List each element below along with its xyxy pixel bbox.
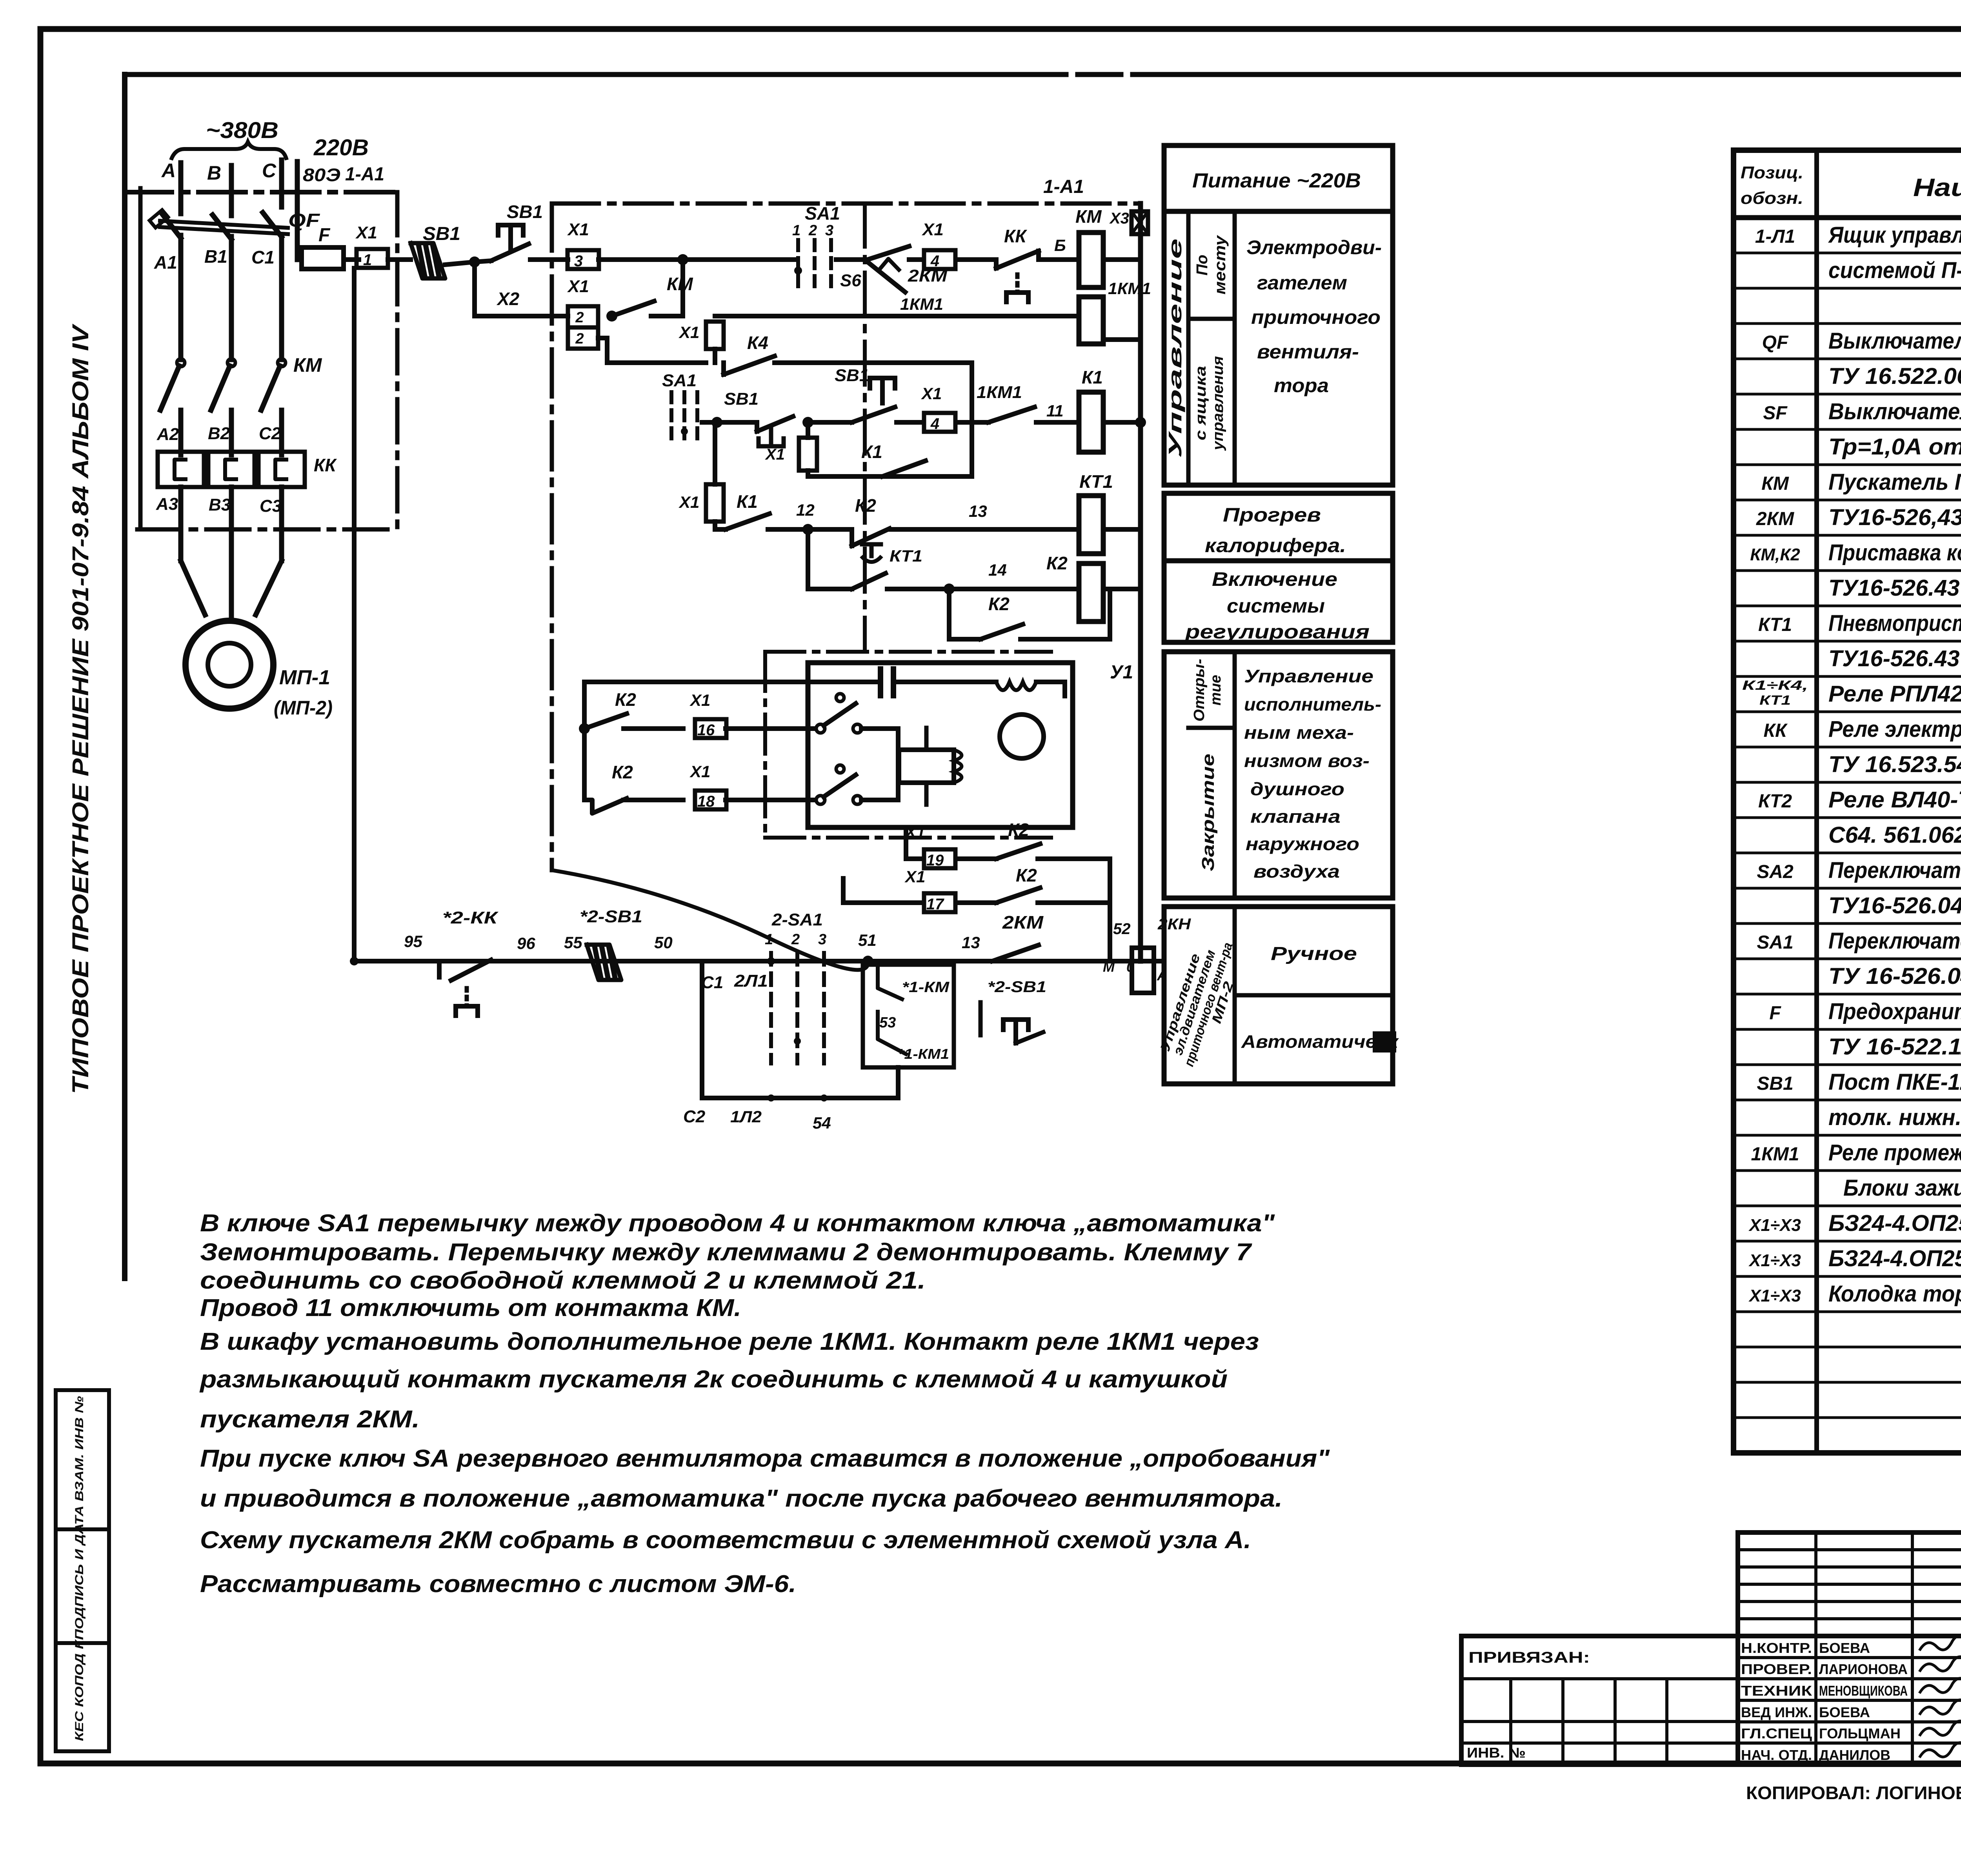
svg-text:SB1: SB1 (507, 202, 543, 222)
svg-text:БЗ24-4.ОП25-В/ВУЗ-10 ТУ16-526.: БЗ24-4.ОП25-В/ВУЗ-10 ТУ16-526.463-79 (1828, 1246, 1961, 1271)
svg-text:К2: К2 (1046, 553, 1068, 573)
wire KT1 coil to rail (1103, 527, 1141, 532)
wire X2 horizontal (475, 314, 568, 318)
wire row5 to K2 coil (887, 587, 1077, 591)
svg-text:В3: В3 (209, 495, 231, 514)
svg-text:2-SA1: 2-SA1 (771, 910, 823, 929)
svg-text:1-А1: 1-А1 (1043, 176, 1084, 197)
svg-text:4: 4 (930, 253, 939, 270)
svg-text:18: 18 (697, 793, 715, 810)
svg-text:Приставка контактная ПКЛ 2204: Приставка контактная ПКЛ 2204 (1828, 540, 1961, 565)
wire X1-16 into У1 (726, 726, 815, 731)
svg-text:19: 19 (926, 852, 944, 869)
switch 2-SA1 dashed poles (769, 953, 773, 1063)
wire 80Э entry tick (295, 162, 300, 260)
wire K1 seal branch bottom (808, 474, 972, 479)
svg-text:ПРИВЯЗАН:: ПРИВЯЗАН: (1468, 1649, 1590, 1666)
lower cell wire to ladder (598, 336, 607, 340)
svg-text:SB1: SB1 (724, 389, 759, 409)
svg-text:ТУ16-526.437-78: ТУ16-526.437-78 (1828, 575, 1961, 601)
riser 12 to row5 (806, 529, 810, 589)
svg-text:*1-КМ1: *1-КМ1 (898, 1046, 949, 1062)
parts table outer frame (1734, 150, 1961, 1453)
svg-text:КК: КК (1763, 720, 1788, 741)
1-А1 dash-dot left boundary (550, 204, 554, 870)
QF handle flag (149, 210, 168, 227)
svg-text:КМ: КМ (667, 274, 693, 294)
svg-text:Х3: Х3 (1109, 210, 1129, 227)
wire X1-18 into У1 (726, 798, 815, 802)
wire to X1-18 (624, 798, 683, 802)
title block upper small grid (1738, 1532, 1961, 1636)
svg-text:По: По (1193, 254, 1211, 275)
relay contact К2 row6 (949, 637, 980, 642)
svg-text:ТЕХНИК: ТЕХНИК (1741, 1683, 1812, 1699)
svg-text:КТ1: КТ1 (1758, 614, 1792, 635)
svg-text:клапана: клапана (1250, 806, 1341, 827)
svg-text:ТУ16-526,437-78.: ТУ16-526,437-78. (1828, 505, 1961, 530)
node row3 seal junction (802, 417, 813, 428)
svg-text:51: 51 (858, 931, 877, 949)
svg-text:К2: К2 (1016, 865, 1037, 885)
wire limit switch to motor node (861, 726, 898, 731)
svg-text:толк. нижн. красн. 1з 1р ТУ16.: толк. нижн. красн. 1з 1р ТУ16.526.216-78 (1828, 1105, 1961, 1130)
terminal X1 wire 19 row (906, 856, 922, 861)
svg-text:*2-КК: *2-КК (442, 908, 499, 927)
wire K2 coil to rail (1103, 587, 1141, 591)
svg-text:Х1: Х1 (904, 867, 925, 886)
svg-text:Наименование: Наименование (1913, 173, 1961, 202)
cabinet 1-Л1 thick boundary vertical (122, 75, 127, 1278)
wire row1 junction (445, 262, 475, 265)
svg-text:С3: С3 (260, 496, 282, 516)
terminal X1 wire 3 (568, 250, 599, 269)
inductor winding in У1 (996, 682, 1036, 690)
svg-text:М: М (1103, 959, 1115, 975)
row6 branch down (947, 589, 951, 639)
svg-text:ПРОВЕР.: ПРОВЕР. (1741, 1661, 1812, 1677)
wire KM coil to right rail (1103, 257, 1141, 262)
svg-text:SA1: SA1 (805, 203, 840, 224)
svg-text:F: F (318, 225, 331, 245)
svg-text:Реле промежуточное РПУ-2: Реле промежуточное РПУ-2 (1828, 1140, 1961, 1165)
svg-text:14: 14 (988, 561, 1007, 579)
svg-text:1-А1: 1-А1 (345, 164, 384, 185)
svg-text:Предохранитель ПРС-6УЗ-П Iпл.В: Предохранитель ПРС-6УЗ-П Iпл.Вст. 4А (1828, 999, 1961, 1024)
terminal X1 wires 2-2 double block (568, 306, 598, 327)
svg-text:В1: В1 (204, 246, 227, 267)
svg-text:2КМ: 2КМ (1002, 912, 1044, 933)
svg-text:тие: тие (1208, 675, 1224, 705)
switch SA1 dashed poles row1 (796, 240, 800, 291)
terminal X3 at top (1131, 211, 1148, 234)
svg-text:Пускатель ПМЛ110004 V~220В: Пускатель ПМЛ110004 V~220В (1828, 469, 1961, 495)
svg-text:Б: Б (1054, 236, 1066, 254)
svg-text:ГЛ.СПЕЦ: ГЛ.СПЕЦ (1741, 1725, 1812, 1741)
svg-text:пускателя 2КМ.: пускателя 2КМ. (200, 1406, 420, 1433)
wire row3 to 1KM1 contact (957, 420, 988, 425)
svg-text:Х1÷Х3: Х1÷Х3 (1748, 1286, 1801, 1305)
svg-text:1: 1 (363, 251, 372, 269)
svg-text:Пост ПКЕ-122-2УЗ толк. верх. 1: Пост ПКЕ-122-2УЗ толк. верх. 1з 1р (1828, 1069, 1961, 1095)
pushbutton SB1 (stop, hatched) (411, 243, 445, 278)
svg-text:2: 2 (575, 331, 584, 347)
svg-text:Тр=1,0А отс. 2.5 ТУ16-522.110: Тр=1,0А отс. 2.5 ТУ16-522.110-74 (1828, 434, 1961, 460)
svg-text:КК: КК (314, 455, 337, 475)
wire row5 left (808, 587, 852, 591)
svg-text:54: 54 (813, 1114, 831, 1132)
svg-text:приточного: приточного (1251, 306, 1381, 328)
svg-text:МЕНОВЩИКОВА: МЕНОВЩИКОВА (1819, 1683, 1908, 1699)
svg-text:2: 2 (808, 222, 817, 239)
wire row4 node 12 (768, 527, 852, 532)
svg-text:S6: S6 (840, 271, 861, 290)
wire cap top row (584, 680, 880, 684)
svg-text:Ящик управления приточной: Ящик управления приточной (1828, 222, 1961, 248)
wire row1 to KK contact (957, 257, 996, 262)
svg-text:Х1: Х1 (567, 277, 589, 296)
svg-text:1-Л1: 1-Л1 (1755, 226, 1795, 247)
left margin archive strip block (54, 1390, 58, 1751)
svg-text:Прогрев: Прогрев (1223, 504, 1321, 526)
svg-text:1Л2: 1Л2 (730, 1107, 762, 1126)
svg-text:Рассматривать совместно с ли: Рассматривать совместно с листом ЭМ-6. (200, 1571, 796, 1598)
svg-text:гателем: гателем (1257, 272, 1347, 294)
wire row1 to X1-4 (909, 257, 922, 262)
terminal X1 wire 17 row (843, 900, 922, 905)
svg-text:Колодка торцевая КТ5У ТУ16-526: Колодка торцевая КТ5У ТУ16-526.462-79 (1828, 1281, 1961, 1307)
left attachment block ПРИВЯЗАН (1461, 1636, 1738, 1765)
sheet outer frame top border (40, 26, 1961, 32)
svg-text:Ручное: Ручное (1271, 943, 1357, 964)
svg-text:F: F (1769, 1003, 1781, 1023)
relay contact К1 seal (882, 461, 926, 476)
node seal-in riser (677, 254, 688, 265)
svg-text:Пневмоприставка ПВЛ 1104: Пневмоприставка ПВЛ 1104 (1828, 611, 1961, 636)
svg-text:КК: КК (1004, 226, 1027, 246)
wire K1 coil to rail (1103, 420, 1141, 425)
svg-text:А1: А1 (154, 252, 177, 273)
limit switch close in У1 (816, 796, 825, 804)
svg-text:SA2: SA2 (1757, 862, 1794, 882)
svg-text:2Л1: 2Л1 (734, 971, 768, 991)
svg-text:Х1: Х1 (765, 446, 785, 463)
svg-text:КЕС КОПОД КПОДПИСЬ И ДАТА ВЗА: КЕС КОПОД КПОДПИСЬ И ДАТА ВЗАМ. ИНВ № (73, 1396, 86, 1741)
svg-text:3: 3 (574, 253, 583, 270)
dash-dot boundary of У1 section (765, 650, 1051, 654)
relay contact К4 (721, 363, 726, 374)
motor МП-1 inner circle (208, 643, 251, 686)
svg-text:БОЕВА: БОЕВА (1819, 1640, 1870, 1656)
svg-text:Х1: Х1 (567, 220, 589, 239)
svg-text:Управление: Управление (1244, 666, 1373, 686)
wire X1 to K1 contact (713, 522, 717, 529)
svg-text:Схему пускателя 2КМ собрать: Схему пускателя 2КМ собрать в соответств… (200, 1527, 1251, 1554)
wire row2 trunk to 1KM1 coil (715, 314, 1077, 318)
svg-text:КМ: КМ (1075, 206, 1102, 227)
phase C entry tick (279, 160, 284, 207)
svg-text:Электродви-: Электродви- (1246, 236, 1382, 258)
svg-text:КТ1: КТ1 (1759, 693, 1791, 708)
thermal relay КК break contact (994, 260, 999, 268)
relay contact К2 break row4 (850, 529, 854, 546)
wire row3 to X1 (897, 420, 922, 425)
svg-text:воздуха: воздуха (1253, 861, 1340, 882)
svg-text:QF: QF (288, 210, 320, 231)
wire X1-b to K4 (713, 349, 717, 363)
phase C line upper (279, 235, 284, 360)
svg-text:соединить со свободной кле: соединить со свободной клеммой 2 и клемм… (200, 1267, 926, 1294)
wire K4 loop top (775, 360, 972, 365)
svg-text:Х1: Х1 (689, 762, 710, 781)
phase B entry tick (229, 165, 234, 216)
svg-text:В ключе SA1 перемычку между: В ключе SA1 перемычку между проводом 4 и… (200, 1210, 1275, 1237)
svg-text:ДАНИЛОВ: ДАНИЛОВ (1819, 1747, 1890, 1763)
svg-text:К1: К1 (1082, 367, 1103, 387)
terminal X1 wire 1 (357, 249, 388, 268)
svg-text:Х1: Х1 (921, 384, 942, 403)
svg-text:1КМ1: 1КМ1 (1108, 279, 1151, 298)
title block signature rows (1738, 1636, 1961, 1765)
svg-text:Выключатель А63-МУЗ V~380В: Выключатель А63-МУЗ V~380В (1828, 399, 1961, 424)
pushbutton SB1 stop row3 (755, 422, 759, 431)
svg-text:1КМ1: 1КМ1 (977, 383, 1022, 402)
svg-text:и приводится в положение: и приводится в положение „автоматика" по… (200, 1485, 1282, 1512)
svg-text:управления: управления (1210, 356, 1226, 451)
svg-text:Блоки зажимов: Блоки зажимов (1843, 1175, 1961, 1201)
function box: Прогрев калорифера (1164, 493, 1393, 561)
wire row1 to SA1 (598, 257, 795, 262)
svg-text:А3: А3 (156, 494, 178, 514)
phase C line lower (279, 487, 284, 561)
svg-text:55: 55 (564, 933, 582, 952)
svg-text:Реле РПЛ4220, 4 ~220В ТУ16-52: Реле РПЛ4220, 4 ~220В ТУ16-523.554-78 (1828, 681, 1961, 707)
wire row1 to SB1 (388, 257, 411, 262)
svg-text:К1÷К4,: К1÷К4, (1742, 678, 1808, 693)
function box: Управление клапаном (1164, 652, 1393, 898)
time relay coil КТ1 (1079, 496, 1103, 554)
svg-text:А: А (161, 160, 176, 182)
relay contact К2 at 19 (957, 856, 996, 861)
terminal X1 vertical row4 (706, 484, 724, 522)
svg-text:13: 13 (969, 502, 987, 520)
pushbutton *2-SB1 hatched (587, 945, 621, 980)
svg-text:КОПИРОВАЛ: ЛОГИНОВА: КОПИРОВАЛ: ЛОГИНОВА (1746, 1783, 1961, 1803)
svg-text:А2: А2 (156, 425, 179, 444)
svg-text:тора: тора (1274, 374, 1329, 396)
wire row1 fuse feed (297, 257, 302, 262)
svg-text:2: 2 (791, 931, 800, 948)
wire 19 row to riser (1038, 856, 1110, 861)
svg-text:К2: К2 (1008, 820, 1029, 840)
svg-text:SB1: SB1 (1757, 1073, 1793, 1094)
parts table row lines (1734, 252, 1961, 254)
function box: Питание ~220В (1164, 145, 1393, 211)
svg-text:Х1: Х1 (679, 493, 699, 511)
svg-text:Х1: Х1 (355, 223, 377, 242)
svg-text:При пуске ключ SА резервн: При пуске ключ SА резервного вентилятора… (200, 1445, 1330, 1472)
terminal С2 row (702, 1096, 898, 1100)
svg-text:К1: К1 (737, 491, 758, 512)
contact *1-КМ (878, 969, 902, 999)
relay contact К2 close row (584, 798, 627, 813)
motor feeder convergence (181, 561, 205, 615)
phase B line upper (229, 236, 234, 360)
svg-text:КМ,К2: КМ,К2 (1750, 545, 1800, 564)
function box: Включение системы регулирования (1164, 561, 1393, 642)
svg-text:КТ1: КТ1 (890, 547, 922, 565)
time contact КТ1 delayed (852, 573, 886, 589)
svg-text:Х1÷Х3: Х1÷Х3 (1748, 1251, 1801, 1270)
power bus / cabinet top dash-dot y=490 (125, 190, 397, 195)
svg-text:КТ2: КТ2 (1758, 791, 1792, 812)
svg-text:системой П-1 (ЯОУ5101-2374УХЛ4: системой П-1 (ЯОУ5101-2374УХЛ4) (1828, 258, 1961, 283)
node X2 branch junction (469, 256, 480, 267)
svg-text:ТУ 16-526.047-74.: ТУ 16-526.047-74. (1828, 963, 1961, 989)
svg-text:*2-SB1: *2-SB1 (988, 978, 1046, 996)
box around *1-КМ interlock (863, 965, 954, 1067)
svg-text:Переключатель ПКУЗ-12С-УЗ.Схе: Переключатель ПКУЗ-12С-УЗ.Схема0102 (1828, 858, 1961, 883)
svg-text:16: 16 (697, 722, 715, 739)
wire row1 to KM coil (1040, 257, 1077, 262)
svg-text:Позиц.: Позиц. (1741, 163, 1803, 182)
fuse F (302, 247, 344, 269)
svg-text:1: 1 (792, 222, 800, 239)
svg-text:4: 4 (930, 415, 939, 433)
svg-text:Земонтировать. Перемычку межд: Земонтировать. Перемычку между клеммами … (200, 1239, 1252, 1266)
svg-text:*2-SB1: *2-SB1 (580, 907, 642, 926)
svg-text:Откры-: Откры- (1191, 659, 1208, 722)
svg-text:В шкафу установить дополнит: В шкафу установить дополнительное реле 1… (200, 1328, 1259, 1355)
wire У1 inner corner (1062, 682, 1067, 696)
wire 1KM1 coil to rail (1103, 337, 1141, 342)
wire row3 to SB1 start (808, 420, 852, 425)
sheet outer frame left border (38, 29, 44, 1763)
wire row1 SA1 to S6 (836, 257, 868, 262)
node after X1-2 (606, 311, 617, 322)
svg-text:с ящика: с ящика (1193, 366, 1209, 440)
capacitor in У1 (878, 669, 883, 696)
terminal С1 stub (700, 961, 704, 1098)
wire row1 after SB1 start (530, 257, 568, 262)
svg-text:ЛАРИОНОВА: ЛАРИОНОВА (1819, 1661, 1908, 1677)
svg-text:ТУ 16.522.064-75: ТУ 16.522.064-75 (1828, 364, 1961, 389)
changeover contact S6/2КМ (868, 246, 909, 260)
thermal relay КК heater elements (158, 452, 204, 487)
wire X1 seal to row3 (806, 471, 810, 476)
1-А1 dash-dot box top (552, 202, 1141, 206)
svg-text:1КМ1: 1КМ1 (1751, 1144, 1799, 1165)
svg-text:ным меха-: ным меха- (1244, 722, 1354, 743)
QF crossbar linkage (160, 221, 288, 228)
relay contact 1КМ1 row3 (988, 407, 1035, 422)
sheet inner horizontal rule y=190 (125, 72, 1961, 77)
svg-text:Питание ~220В: Питание ~220В (1192, 169, 1361, 192)
svg-text:Закрытие: Закрытие (1199, 754, 1218, 871)
svg-text:В: В (207, 162, 221, 184)
svg-text:вентиля-: вентиля- (1257, 341, 1359, 363)
svg-text:QF: QF (1762, 332, 1789, 353)
switch SA1 dashed poles row3 (669, 392, 673, 441)
actuator У1 enclosure (808, 663, 1073, 827)
svg-text:КМ: КМ (1761, 473, 1789, 494)
svg-text:С2: С2 (259, 424, 281, 443)
cabinet dash-dot bottom y=1350 (137, 527, 397, 532)
svg-text:(МП-2): (МП-2) (274, 697, 333, 719)
svg-text:17: 17 (926, 896, 944, 913)
svg-text:ТИПОВОЕ ПРОЕКТНОЕ РЕШЕНИЕ 90: ТИПОВОЕ ПРОЕКТНОЕ РЕШЕНИЕ 901-07-9.84 АЛ… (68, 324, 93, 1094)
svg-text:Провод 11 отключить от конт: Провод 11 отключить от контакта КМ. (200, 1294, 741, 1322)
wire row6 to riser (1021, 637, 1110, 642)
svg-text:БЗ24-4.ОП25-В/ВУЗ-5 ТУ16-526.: БЗ24-4.ОП25-В/ВУЗ-5 ТУ16-526.462-79 (1828, 1211, 1961, 1236)
svg-text:НАЧ. ОТД.: НАЧ. ОТД. (1741, 1747, 1812, 1763)
sheet outer frame bottom border (40, 1761, 1961, 1767)
svg-text:95: 95 (404, 932, 422, 951)
svg-text:Х2: Х2 (496, 289, 520, 309)
cabinet dash-dot right vertical x=1013 (395, 192, 400, 529)
svg-text:Реле электротепловое РТЛ 1016: Реле электротепловое РТЛ 101604 (1828, 716, 1961, 742)
parts table column Позиц обозн (1814, 150, 1819, 1453)
svg-text:У1: У1 (1110, 662, 1133, 683)
phase B line lower (229, 487, 234, 561)
contactor contact 2КМ bottom (992, 945, 1039, 961)
wire У1 exit bottom (904, 827, 908, 859)
svg-text:КТ1: КТ1 (1079, 471, 1113, 492)
contact *1-КМ1 (878, 1012, 906, 1054)
svg-text:Х1: Х1 (689, 691, 710, 709)
svg-text:низмом воз-: низмом воз- (1244, 751, 1370, 771)
terminal X1 seal vertical (799, 438, 817, 471)
svg-text:С2: С2 (683, 1107, 706, 1126)
svg-text:SF: SF (1763, 403, 1788, 424)
svg-text:Включение: Включение (1212, 568, 1337, 590)
svg-text:системы: системы (1227, 595, 1325, 617)
wire row3 from SA1 (702, 420, 757, 425)
svg-text:Х1: Х1 (904, 823, 925, 841)
svg-text:11: 11 (1046, 402, 1064, 420)
svg-text:С64. 561.062.ТО: С64. 561.062.ТО (1828, 822, 1961, 848)
terminal X1 wire 4 row3 (924, 413, 955, 432)
motor МП-1 outer circle (186, 621, 273, 709)
phase A line lower (178, 487, 184, 561)
parts table header row (1734, 215, 1961, 220)
relay winding scallops (954, 750, 962, 783)
svg-text:душного: душного (1250, 779, 1344, 799)
terminal X1 wire 18 (695, 791, 726, 809)
svg-text:В2: В2 (208, 424, 230, 443)
relay contact К2 open row (584, 714, 627, 729)
svg-text:К2: К2 (615, 689, 636, 710)
relay coil К2 (1079, 564, 1103, 622)
C1 feeder vertical (352, 268, 357, 961)
svg-text:80Э: 80Э (303, 165, 340, 185)
wire seal to riser (651, 314, 683, 318)
pushbutton SB1 start contact (475, 261, 491, 262)
svg-text:Х1: Х1 (921, 220, 944, 239)
terminal X1 wire 4 (924, 250, 955, 269)
svg-text:С1: С1 (251, 247, 275, 267)
svg-text:месту: месту (1212, 235, 1229, 294)
left rail for K2 rows (582, 682, 587, 800)
svg-text:SB1: SB1 (423, 224, 460, 244)
svg-text:SA1: SA1 (662, 371, 697, 390)
pushbutton SB1 start row3 (852, 407, 895, 422)
svg-text:52: 52 (1113, 920, 1131, 938)
svg-text:2: 2 (575, 309, 584, 326)
svg-text:С: С (262, 160, 277, 182)
brace for ~380V supply (171, 142, 287, 160)
power cabinet thin left edge (138, 188, 143, 529)
